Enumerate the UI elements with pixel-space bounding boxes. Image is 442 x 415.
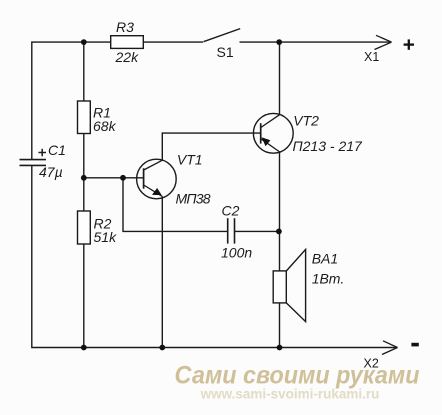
resistor R1 <box>78 101 91 134</box>
wire node base to C2 <box>123 178 228 232</box>
svg-text:R3: R3 <box>116 19 134 35</box>
loudspeaker BA1 <box>273 249 305 321</box>
terminal X1 arrow <box>375 35 392 49</box>
svg-text:47µ: 47µ <box>39 164 63 180</box>
C1 plus sign <box>39 149 47 157</box>
wire from S1 to X1 arrow <box>240 41 392 43</box>
resistor R3 <box>111 36 144 49</box>
svg-text:51k: 51k <box>94 229 118 245</box>
transistor VT1 <box>137 159 177 199</box>
junction rail VT1 emitter <box>159 345 165 351</box>
svg-text:C1: C1 <box>48 142 66 158</box>
wire R2 bottom to rail <box>83 244 85 348</box>
wire C2 right to VT2 emitter node <box>235 230 280 232</box>
svg-text:П213 - 217: П213 - 217 <box>293 138 364 154</box>
svg-text:X1: X1 <box>364 50 379 64</box>
wire VT1 emitter down to rail <box>161 196 163 347</box>
svg-text:100n: 100n <box>221 245 252 261</box>
svg-text:Сами своими руками: Сами своими руками <box>175 362 420 390</box>
svg-text:www.sami-svoimi-rukami.ru: www.sami-svoimi-rukami.ru <box>200 387 380 402</box>
resistor R2 <box>78 211 91 244</box>
plus label <box>404 39 414 49</box>
wire top from R3 to switch S1 <box>143 41 203 43</box>
capacitor C1 <box>20 160 47 166</box>
junction VT1 base node <box>120 175 126 181</box>
svg-text:BA1: BA1 <box>312 251 338 267</box>
capacitor C2 <box>228 218 235 243</box>
svg-text:68k: 68k <box>93 118 117 134</box>
svg-text:1Вт.: 1Вт. <box>312 271 345 287</box>
transistor VT2 <box>253 113 293 153</box>
switch S1 <box>204 29 241 42</box>
terminal X2 arrow <box>382 341 398 355</box>
junction rail R2 <box>81 345 87 351</box>
wire VT2 collector vertical <box>279 42 281 115</box>
wire top-left vertical (upper part, to C1) <box>32 42 111 159</box>
junction top-left node <box>81 39 87 45</box>
wire VT2 emitter down to rail <box>279 152 281 348</box>
junction divider node <box>81 175 87 181</box>
wire R1 bottom to R2 top <box>83 134 85 212</box>
junction C2 emitter node <box>276 229 282 235</box>
svg-text:МП38: МП38 <box>176 190 211 206</box>
wire VT1 base horizontal <box>84 177 144 179</box>
junction rail BA1 <box>277 345 283 351</box>
svg-text:S1: S1 <box>217 44 234 60</box>
svg-text:VT2: VT2 <box>293 112 319 128</box>
svg-text:VT1: VT1 <box>177 152 203 168</box>
wire VT1 collector up and right to VT2 base <box>162 133 260 160</box>
junction X1 node <box>276 39 282 45</box>
wire R1 top <box>83 42 85 101</box>
minus label <box>411 343 418 347</box>
wire bottom rail <box>32 166 398 348</box>
svg-text:22k: 22k <box>115 49 140 65</box>
svg-text:C2: C2 <box>222 202 240 218</box>
